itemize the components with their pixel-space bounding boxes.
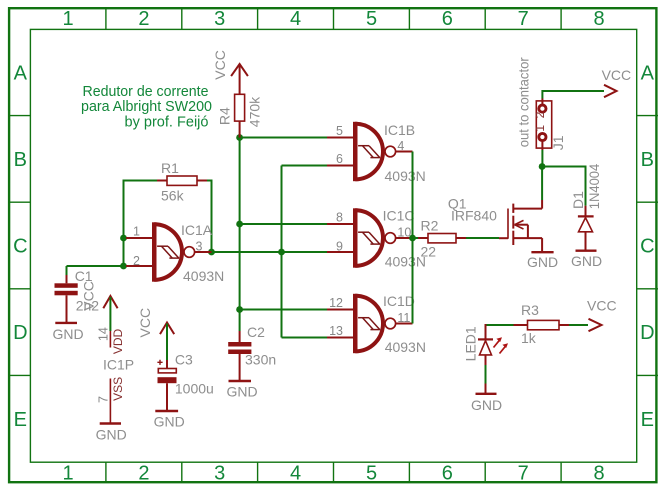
svg-text:5: 5: [366, 8, 377, 30]
svg-text:R1: R1: [161, 160, 179, 176]
svg-text:GND: GND: [471, 397, 502, 413]
svg-text:2: 2: [533, 111, 547, 118]
wire R1 feedback left branch to IC1A inputs: [124, 181, 158, 267]
supply VCC arrow for C3: [160, 323, 174, 335]
resistor R1: [157, 176, 207, 185]
junction net A at R4 / pin 5: [236, 134, 243, 141]
svg-text:7: 7: [96, 396, 110, 403]
svg-text:2: 2: [138, 463, 149, 485]
svg-text:GND: GND: [52, 326, 83, 342]
svg-text:VSS: VSS: [111, 377, 125, 401]
ground symbol below C1: [55, 322, 77, 324]
wire C1 to IC1A pin 2: [67, 265, 124, 267]
svg-text:1: 1: [62, 463, 73, 485]
svg-text:22: 22: [421, 244, 437, 260]
wire net A to IC1B pin 5: [240, 137, 328, 139]
svg-text:GND: GND: [527, 254, 558, 270]
connector J1 (out to contactor): [536, 99, 551, 151]
svg-text:330n: 330n: [245, 351, 276, 367]
wire J1 pin 2 to VCC arrow: [542, 91, 604, 99]
diode D1: [578, 206, 594, 250]
svg-text:C2: C2: [247, 324, 265, 340]
LED1 light emission arrows: [494, 337, 509, 353]
svg-text:12: 12: [329, 296, 343, 310]
resistor R3: [514, 320, 570, 329]
transistor Q1 (n-channel MOSFET): [499, 200, 542, 252]
supply VCC arrow above R4: [231, 64, 248, 94]
svg-text:GND: GND: [154, 413, 185, 429]
svg-text:IC1A: IC1A: [181, 222, 213, 238]
svg-text:R2: R2: [421, 217, 439, 233]
wire Q1 drain up to J1 node: [541, 167, 543, 201]
nand gate IC1D: [327, 294, 413, 353]
svg-text:C: C: [640, 236, 654, 258]
svg-text:7: 7: [518, 463, 529, 485]
svg-text:GND: GND: [96, 426, 127, 442]
resistor R2: [418, 234, 466, 243]
svg-text:VDD: VDD: [111, 329, 125, 355]
supply VCC arrow for IC1P pin 14: [103, 296, 117, 308]
svg-text:LED1: LED1: [462, 326, 478, 361]
ground symbol below LED1: [476, 393, 497, 395]
wire R1 feedback right branch to IC1A output: [207, 181, 212, 253]
wire net B to IC1B pin 6: [282, 165, 329, 167]
svg-text:GND: GND: [571, 253, 602, 269]
svg-text:D: D: [640, 322, 654, 344]
svg-text:56k: 56k: [161, 187, 185, 203]
LED1 ground pin: [485, 384, 487, 394]
junction drain / J1 / D1 node: [539, 163, 546, 170]
svg-text:C: C: [13, 236, 27, 258]
svg-text:VCC: VCC: [212, 50, 228, 80]
svg-text:E: E: [641, 409, 654, 431]
svg-text:8: 8: [594, 8, 605, 30]
svg-text:IC1D: IC1D: [383, 293, 415, 309]
nand gate IC1B: [327, 122, 413, 181]
svg-text:4: 4: [397, 139, 404, 153]
svg-text:out to contactor: out to contactor: [516, 57, 532, 147]
svg-text:5: 5: [336, 124, 343, 138]
svg-text:3: 3: [214, 8, 225, 30]
svg-text:VCC: VCC: [587, 298, 617, 314]
svg-text:GND: GND: [226, 384, 257, 400]
svg-text:IC1P: IC1P: [103, 356, 134, 372]
svg-text:C3: C3: [175, 351, 193, 367]
wire LED1 cathode to ground: [485, 365, 487, 384]
svg-text:6: 6: [442, 463, 453, 485]
svg-text:E: E: [14, 409, 27, 431]
svg-text:1k: 1k: [521, 330, 537, 346]
svg-text:5: 5: [366, 463, 377, 485]
junction net A at pin 8: [236, 221, 243, 228]
svg-text:1000u: 1000u: [175, 381, 214, 397]
svg-text:1N4004: 1N4004: [586, 164, 602, 210]
svg-text:6: 6: [336, 152, 343, 166]
wire LED1 to R3: [486, 324, 514, 326]
svg-text:J1: J1: [550, 135, 566, 150]
wire net A to IC1C pin 8: [240, 223, 328, 225]
power part IC1P pin 14 lead: [109, 331, 111, 348]
title text block: [81, 84, 212, 131]
svg-text:R3: R3: [521, 302, 539, 318]
wire R3 to VCC: [569, 324, 588, 326]
svg-text:1: 1: [62, 8, 73, 30]
svg-text:Redutor de corrente: Redutor de corrente: [83, 84, 209, 100]
junction gate outputs at R2: [409, 235, 416, 242]
wire net A to IC1D pin 12: [240, 309, 328, 311]
svg-text:A: A: [641, 62, 655, 84]
wire J1 pin 1 to drain node: [541, 150, 543, 167]
junction net A at pin 12 / C2: [236, 306, 243, 313]
wire VCC to C3: [166, 324, 168, 361]
wire VCC to IC1P pin 14: [109, 297, 111, 331]
nand gate IC1C: [327, 208, 413, 267]
svg-text:4: 4: [290, 463, 301, 485]
svg-text:IC1B: IC1B: [384, 122, 415, 138]
svg-text:4093N: 4093N: [385, 168, 426, 184]
svg-text:7: 7: [518, 8, 529, 30]
svg-text:4093N: 4093N: [183, 268, 224, 284]
svg-text:2: 2: [138, 8, 149, 30]
svg-text:1: 1: [133, 224, 140, 238]
svg-text:470k: 470k: [247, 96, 263, 127]
wire paralleled gate outputs column: [412, 152, 414, 324]
svg-text:4: 4: [290, 8, 301, 30]
svg-text:B: B: [14, 149, 27, 171]
svg-text:13: 13: [329, 324, 343, 338]
power part IC1P pin 7 lead: [109, 379, 111, 424]
junction net B at pin 9 line: [278, 249, 285, 256]
svg-text:A: A: [14, 62, 28, 84]
svg-text:11: 11: [397, 311, 410, 325]
svg-text:3: 3: [214, 463, 225, 485]
svg-text:by prof. Feijó: by prof. Feijó: [125, 114, 209, 130]
wire outputs junction to R2: [413, 237, 419, 239]
svg-text:B: B: [641, 149, 654, 171]
capacitor C1: [55, 266, 78, 322]
svg-text:3: 3: [196, 240, 203, 254]
ground symbol below C2: [229, 380, 252, 382]
svg-text:2: 2: [133, 254, 140, 268]
junction IC1A output / R1 feedback: [208, 249, 215, 256]
svg-text:8: 8: [594, 463, 605, 485]
supply VCC arrow right of R3: [589, 319, 602, 331]
svg-text:8: 8: [336, 211, 343, 225]
svg-text:VCC: VCC: [81, 281, 97, 311]
junction IC1A pin 2: [120, 263, 127, 270]
svg-text:1: 1: [533, 125, 547, 132]
svg-text:6: 6: [442, 8, 453, 30]
LED LED1: [478, 324, 493, 365]
ground symbol below Q1 source: [531, 251, 553, 253]
capacitor C3 electrolytic: [157, 360, 176, 411]
svg-text:IRF840: IRF840: [451, 208, 497, 224]
ground symbol below D1: [576, 249, 597, 251]
wire net B to IC1D pin 13: [282, 337, 329, 339]
svg-text:VCC: VCC: [137, 308, 153, 338]
wire net A vertical column from R4 to C2: [239, 138, 241, 332]
wire net B oscillator output to IC1C pin 9: [212, 251, 329, 253]
svg-text:D: D: [13, 322, 27, 344]
junction IC1A pin 1: [120, 235, 127, 242]
svg-text:VCC: VCC: [602, 67, 632, 83]
supply VCC arrow right of J1: [604, 85, 617, 97]
svg-text:9: 9: [336, 240, 343, 254]
resistor R4: [235, 94, 245, 137]
wire net B vertical column pin 6 to pin 13: [281, 166, 283, 338]
svg-text:IC1C: IC1C: [383, 207, 415, 223]
wire R2 to Q1 gate: [466, 237, 499, 239]
nand gate IC1A (schmitt trigger 4093): [126, 222, 212, 281]
wire node to D1 anode branch: [542, 167, 585, 206]
svg-text:D1: D1: [570, 191, 586, 209]
svg-text:para Albright SW200: para Albright SW200: [81, 99, 212, 115]
capacitor C2: [228, 331, 251, 381]
ground symbol below IC1P: [100, 422, 121, 424]
svg-text:R4: R4: [217, 107, 233, 125]
ground symbol below C3: [155, 410, 178, 412]
svg-text:14: 14: [96, 327, 110, 341]
svg-text:4093N: 4093N: [385, 339, 426, 355]
